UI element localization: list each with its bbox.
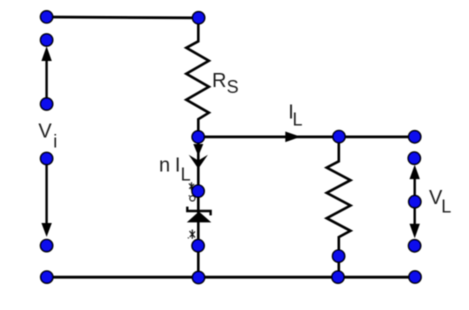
node top-right: [409, 131, 421, 143]
node bottom-left: [41, 271, 53, 283]
node top of RS: [193, 12, 205, 24]
wire top horizontal: [47, 16, 199, 20]
current arrow n I_L head 1: [193, 144, 203, 156]
node VL top end: [408, 152, 420, 164]
svg-text:i: i: [53, 131, 57, 151]
load resistor: [327, 137, 351, 277]
label R_S: [212, 70, 239, 97]
node Vi arrow lower start: [41, 152, 53, 164]
label V_i: [38, 121, 57, 152]
node VL middle: [409, 196, 421, 208]
V_L annotation arrow down: [410, 202, 420, 239]
svg-text:L: L: [293, 110, 303, 130]
V_i annotation arrow down: [41, 159, 51, 237]
speck mark lower: [188, 230, 195, 239]
node Vi arrow upper start: [41, 98, 53, 110]
node below zener: [192, 240, 204, 252]
node load on bottom wire: [332, 271, 344, 283]
V_i annotation arrow up: [41, 46, 51, 104]
svg-text:n: n: [159, 154, 170, 176]
bottom wire: [47, 276, 415, 279]
label V_L: [429, 187, 451, 216]
resistor R_S: [186, 18, 209, 137]
node Vi arrow top end: [41, 34, 53, 46]
V_L annotation arrow up: [410, 165, 420, 202]
svg-text:S: S: [227, 77, 239, 97]
node VL bottom end: [409, 240, 421, 252]
label n I_L: [159, 154, 191, 184]
node junction RS / IL: [192, 131, 204, 143]
node dots: [41, 11, 422, 284]
svg-text:V: V: [38, 121, 52, 143]
wire middle vertical branch: [197, 137, 200, 277]
speck mark upper: [189, 182, 195, 201]
current arrow n I_L head 2 (barbed): [189, 155, 208, 169]
current arrow I_L head: [285, 132, 300, 143]
node load top: [333, 131, 345, 143]
node top-left: [41, 11, 53, 23]
node above zener: [192, 185, 204, 197]
zener diode anode triangle: [187, 212, 212, 223]
node Vi arrow bottom end: [41, 240, 53, 252]
node middle bottom: [192, 271, 204, 283]
svg-text:R: R: [212, 70, 226, 92]
label I_L: [288, 102, 302, 130]
zener diode cathode bar: [187, 207, 210, 216]
node load bottom lead: [333, 250, 345, 262]
wire middle horizontal: [198, 135, 414, 138]
svg-text:L: L: [441, 196, 451, 216]
node bottom-right: [409, 271, 421, 283]
svg-text:L: L: [181, 164, 191, 184]
